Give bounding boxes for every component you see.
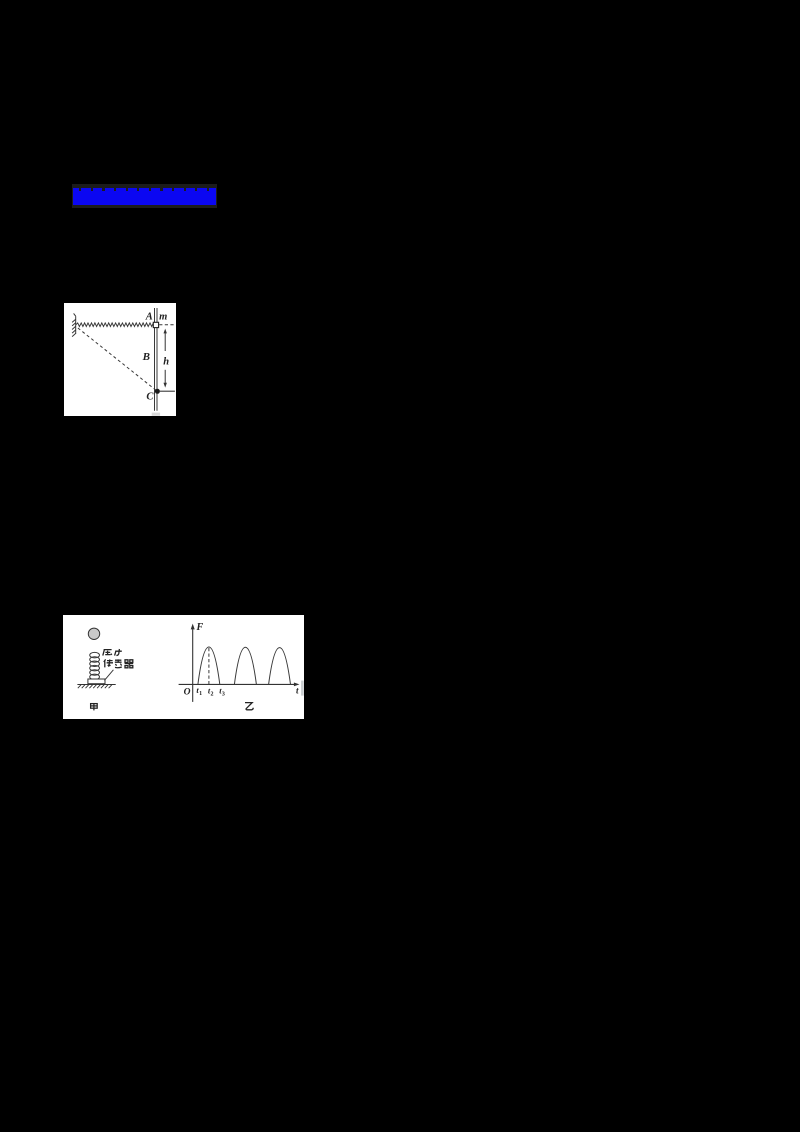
t axis [179,683,300,687]
line at C to right edge [160,390,175,392]
blue title text block [73,188,216,205]
h dimension arrow down [164,370,167,388]
right edge gray scan bar [301,681,304,696]
wall anchor [72,313,76,336]
mass block m at A [153,322,158,327]
coil spring on sensor [90,652,100,658]
sensor box [88,679,105,684]
F axis [191,624,195,702]
svg-text:C: C [146,392,154,403]
diagram box 1: spring / rod / A B C [64,303,176,416]
svg-text:m: m [159,311,167,322]
hump 2 [234,647,256,684]
rod bottom smudge [152,413,160,416]
svg-text:F: F [195,622,203,633]
svg-text:1: 1 [199,691,202,697]
label 甲 [91,704,98,711]
rod (vertical track, double line) [155,308,158,411]
ground line [77,684,115,686]
ball [88,628,99,639]
svg-text:O: O [184,687,191,697]
dashed peak line [208,648,210,684]
label 乙 [245,703,253,710]
svg-text:2: 2 [211,692,214,698]
ground hatching [78,685,112,689]
spring (horizontal zigzag) [76,323,153,327]
svg-text:A: A [145,312,153,323]
blue highlighted title bar [72,184,217,208]
diagram box 2: ball/spring sensor (left) + F-t graph (right) [63,615,304,719]
label 压力 (pressure) glyphs [103,649,122,656]
svg-text:B: B [142,351,150,363]
dashed diagonal wall to C [78,328,156,391]
node C dot [155,389,160,394]
hump 3 [269,648,291,685]
svg-text:t: t [296,686,299,696]
label 传感器 (sensor) glyphs [104,659,133,667]
hump 1 [198,647,220,684]
h dimension arrow up [164,329,167,351]
dashed line right of block [159,324,175,326]
svg-text:3: 3 [222,692,225,698]
svg-text:h: h [163,357,169,368]
pointer line from label to sensor [104,670,113,681]
